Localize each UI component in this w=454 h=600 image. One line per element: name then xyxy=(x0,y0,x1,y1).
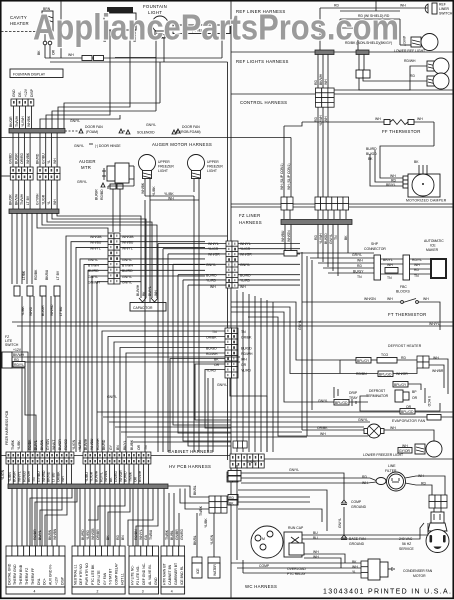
svg-text:BK/BN: BK/BN xyxy=(40,439,44,450)
svg-text:BN: BN xyxy=(121,535,125,540)
svg-text:OR: OR xyxy=(133,476,137,482)
svg-text:FBC: FBC xyxy=(400,285,407,289)
svg-text:WH/YL: WH/YL xyxy=(429,322,440,326)
ICE box xyxy=(192,557,202,563)
light leads xyxy=(144,179,146,197)
svg-text:RD/WH: RD/WH xyxy=(404,59,416,63)
svg-text:GN/YL: GN/YL xyxy=(247,460,257,464)
svg-text:LOWER REF LIGHT: LOWER REF LIGHT xyxy=(394,49,425,53)
svg-text:WH/BN: WH/BN xyxy=(53,528,57,540)
svg-text:DOOR FAN: DOOR FAN xyxy=(182,125,200,129)
svg-text:HOT L1: HOT L1 xyxy=(121,573,125,585)
lower ref light xyxy=(411,37,421,47)
svg-text:FRZR HARNESS PCB: FRZR HARNESS PCB xyxy=(5,410,9,445)
svg-text:TN/WH: TN/WH xyxy=(20,193,24,205)
staircase conn3 rows to left verticals xyxy=(102,331,225,452)
stepped feeder lines right xyxy=(231,302,340,360)
svg-text:MOTORIZED DAMPER: MOTORIZED DAMPER xyxy=(406,199,447,203)
svg-text:RD/GD: RD/GD xyxy=(22,471,26,482)
compressor xyxy=(251,526,283,558)
svg-text:TN: TN xyxy=(144,445,148,450)
svg-text:TN/BK: TN/BK xyxy=(128,471,132,482)
terminal block B xyxy=(72,546,125,594)
cabinet connector row 1 xyxy=(6,452,11,458)
svg-text:WH/BU: WH/BU xyxy=(281,230,285,242)
svg-text:EVAPORATOR FAN: EVAPORATOR FAN xyxy=(392,419,426,423)
svg-text:HARNESS: HARNESS xyxy=(239,220,262,225)
svg-text:CAPACITOR: CAPACITOR xyxy=(133,306,153,310)
svg-text:RD/BD: RD/BD xyxy=(100,189,104,200)
svg-text:NEUTRAL L1: NEUTRAL L1 xyxy=(73,564,77,585)
svg-text:HTR MAIN BT: HTR MAIN BT xyxy=(162,563,166,585)
svg-text:RD: RD xyxy=(362,475,367,479)
svg-text:BU: BU xyxy=(313,531,318,535)
svg-text:GN/BD: GN/BD xyxy=(9,153,13,164)
svg-text:LINER: LINER xyxy=(439,7,450,11)
svg-text:WH/YL: WH/YL xyxy=(208,242,219,246)
bus bar 5 xyxy=(8,484,168,489)
svg-text:YL/RD: YL/RD xyxy=(206,279,217,283)
svg-text:BK/WH: BK/WH xyxy=(14,193,18,205)
capacitor box xyxy=(130,303,166,312)
divider ref lights bottom xyxy=(231,93,453,95)
hv pcb grid xyxy=(209,496,227,513)
svg-text:WH: WH xyxy=(390,426,396,430)
svg-text:DRIP: DRIP xyxy=(349,391,358,395)
svg-text:WH/RD: WH/RD xyxy=(42,470,46,482)
svg-text:GN/YL: GN/YL xyxy=(70,119,80,123)
svg-text:FOUNTAIN DISPLAY: FOUNTAIN DISPLAY xyxy=(13,73,46,77)
svg-text:DIGITAL GND: DIGITAL GND xyxy=(7,563,11,585)
wires bus1 to grids xyxy=(12,133,14,167)
fountain display box xyxy=(10,69,63,78)
svg-text:RUN CAP: RUN CAP xyxy=(288,526,304,530)
svg-text:BK: BK xyxy=(229,502,234,506)
svg-text:BK/WH: BK/WH xyxy=(27,470,31,482)
defrost 2x2 grid xyxy=(417,356,429,368)
svg-text:GN/YL: GN/YL xyxy=(88,275,98,279)
svg-text:TN: TN xyxy=(387,276,392,280)
svg-text:LOWER FREEZER LIGHT: LOWER FREEZER LIGHT xyxy=(363,453,403,457)
240 plug xyxy=(433,508,435,512)
cabinet connector row 2 xyxy=(83,452,88,458)
svg-text:RD: RD xyxy=(314,235,318,240)
svg-text:BU/WH: BU/WH xyxy=(84,438,88,450)
svg-text:RD: RD xyxy=(410,74,415,78)
svg-text:WH/YL: WH/YL xyxy=(18,471,22,482)
terminal block D xyxy=(161,546,185,594)
svg-text:THERM BNB: THERM BNB xyxy=(19,564,23,585)
svg-text:COMP: COMP xyxy=(259,564,270,568)
central connector 2 xyxy=(226,241,238,288)
svg-text:BU/GR: BU/GR xyxy=(95,189,99,200)
svg-text:GN/YL: GN/YL xyxy=(122,258,132,262)
left column bundle xyxy=(21,296,23,452)
svg-text:YL/WH: YL/WH xyxy=(319,233,323,244)
svg-text:WH/D: WH/D xyxy=(29,306,33,316)
svg-text:GN/YL: GN/YL xyxy=(289,468,299,472)
svg-text:BU/GD: BU/GD xyxy=(324,233,328,244)
svg-text:HEATER: HEATER xyxy=(10,21,29,26)
shield label boxes xyxy=(82,56,92,61)
svg-text:RD: RD xyxy=(314,80,318,85)
svg-text:MAKER: MAKER xyxy=(426,248,439,252)
frame stub wire xyxy=(1,175,10,177)
svg-text:GN/YL: GN/YL xyxy=(88,258,98,262)
divider cabinet harness top left xyxy=(1,455,231,457)
svg-text:GROUND: GROUND xyxy=(351,505,367,509)
svg-text:WH: WH xyxy=(362,481,368,485)
long horiz pair xyxy=(12,321,454,323)
svg-text:FREEZER: FREEZER xyxy=(158,165,174,169)
svg-text:WH/BR: WH/BR xyxy=(432,369,444,373)
svg-text:WH/BU: WH/BU xyxy=(90,438,94,450)
svg-text:WC HARNESS: WC HARNESS xyxy=(245,584,277,589)
svg-text:OR/BR: OR/BR xyxy=(96,529,100,540)
pin blocks above fz bus xyxy=(281,197,293,210)
svg-text:CONDENSER FAN: CONDENSER FAN xyxy=(403,569,433,573)
svg-text:TERMINATOR: TERMINATOR xyxy=(366,394,389,398)
svg-text:BK/WH: BK/WH xyxy=(13,353,25,357)
svg-text:WH/YL: WH/YL xyxy=(139,529,143,540)
left zigzag wires xyxy=(10,368,36,452)
svg-text:BPL/GD: BPL/GD xyxy=(379,373,392,377)
svg-text:2: 2 xyxy=(97,590,99,594)
svg-text:BK/RD: BK/RD xyxy=(102,439,106,450)
svg-text:TN/BU: TN/BU xyxy=(149,529,153,540)
svg-text:OR/BK: OR/BK xyxy=(317,426,328,430)
divider vertical main x=231 xyxy=(230,1,232,599)
svg-text:YL/BN: YL/BN xyxy=(8,472,12,482)
bpl/gy mid xyxy=(393,382,408,388)
svg-text:TN: TN xyxy=(241,330,246,334)
svg-text:WH/LT: WH/LT xyxy=(52,440,56,450)
upper freezer light 1 xyxy=(139,155,156,172)
grid connector 3x4 xyxy=(316,88,335,107)
svg-text:RD: RD xyxy=(229,496,234,500)
terminal block C xyxy=(129,546,159,594)
svg-text:OR: OR xyxy=(241,363,247,367)
WATER box xyxy=(208,557,220,563)
svg-text:BU/WH: BU/WH xyxy=(95,470,99,482)
vertical wire pair right xyxy=(227,62,229,460)
svg-text:WH/BK: WH/BK xyxy=(27,115,31,127)
svg-text:TN/BK: TN/BK xyxy=(165,529,169,540)
svg-text:RD: RD xyxy=(401,356,406,360)
svg-text:WH: WH xyxy=(324,79,328,85)
svg-text:BU/RD: BU/RD xyxy=(88,269,99,273)
drip tray heater symbol xyxy=(333,387,335,398)
svg-text:WH: WH xyxy=(313,550,319,554)
svg-text:TN: TN xyxy=(32,477,36,482)
svg-text:DISP: DISP xyxy=(60,576,64,585)
svg-text:GN/YL: GN/YL xyxy=(358,418,368,422)
svg-text:FT THERMISTOR: FT THERMISTOR xyxy=(388,312,427,317)
svg-text:CAVITY: CAVITY xyxy=(10,15,27,20)
svg-text:GARBNER BT: GARBNER BT xyxy=(174,563,178,585)
svg-text:DOOR FAN: DOOR FAN xyxy=(85,125,103,129)
svg-text:MOTOR: MOTOR xyxy=(413,574,426,578)
svg-text:DEFROST: DEFROST xyxy=(369,389,385,393)
svg-text:WH: WH xyxy=(324,116,328,122)
svg-text:RD: RD xyxy=(357,264,362,268)
svg-text:M: M xyxy=(262,537,265,541)
svg-text:YL: YL xyxy=(47,160,51,164)
svg-text:GN/YL: GN/YL xyxy=(298,320,302,330)
svg-text:YL/WH: YL/WH xyxy=(21,116,25,127)
svg-text:BK: BK xyxy=(368,157,373,161)
svg-text:YL/TN: YL/TN xyxy=(78,440,82,450)
svg-text:GN/YL: GN/YL xyxy=(338,518,342,528)
svg-text:GA: GA xyxy=(144,534,148,540)
svg-text:BU/BK: BU/BK xyxy=(130,439,134,450)
svg-text:SHP: SHP xyxy=(371,242,379,246)
svg-text:WH: WH xyxy=(400,4,406,8)
svg-text:GR/YL: GR/YL xyxy=(352,253,362,257)
svg-text:GY: GY xyxy=(109,444,113,450)
svg-text:AUTOMATIC: AUTOMATIC xyxy=(424,239,444,243)
svg-text:BU/GR: BU/GR xyxy=(41,305,45,316)
svg-text:FZR LITE: FZR LITE xyxy=(97,570,101,585)
svg-text:OR/BK: OR/BK xyxy=(56,471,60,482)
svg-text:WH/GB: WH/GB xyxy=(91,528,95,540)
svg-text:RD/YL: RD/YL xyxy=(14,363,24,367)
svg-text:GY/WH: GY/WH xyxy=(36,193,40,205)
svg-text:FREEZER: FREEZER xyxy=(207,165,223,169)
bus bar 1 xyxy=(9,129,65,134)
svg-text:AL VALVE BI-: AL VALVE BI- xyxy=(148,564,152,585)
svg-text:WH: WH xyxy=(53,199,57,205)
svg-text:OR: OR xyxy=(52,49,56,55)
svg-text:WH: WH xyxy=(68,53,74,57)
svg-text:BU/GD: BU/GD xyxy=(366,152,377,156)
svg-text:WH/OR: WH/OR xyxy=(119,470,123,482)
svg-text:WATER: WATER xyxy=(213,564,217,576)
wires below bars xyxy=(317,55,319,89)
connector grid A1 2x4 xyxy=(10,167,33,180)
svg-text:DEFROST HEATER: DEFROST HEATER xyxy=(388,344,422,348)
svg-text:BPL/GY: BPL/GY xyxy=(394,383,407,387)
svg-text:AUGER: AUGER xyxy=(79,159,96,164)
svg-text:BU/BL: BU/BL xyxy=(170,530,174,540)
svg-text:WH/BK: WH/BK xyxy=(141,182,145,194)
svg-text:GR/YL: GR/YL xyxy=(77,180,87,184)
connector grid A2 2x4 xyxy=(37,167,60,180)
svg-text:YL/GR: YL/GR xyxy=(208,247,219,251)
wire horiz y58 xyxy=(45,57,156,59)
svg-text:LINE: LINE xyxy=(388,464,396,468)
svg-text:BU/RD: BU/RD xyxy=(122,269,133,273)
svg-text:BU/GR: BU/GR xyxy=(58,439,62,450)
svg-text:ICE BND RL: ICE BND RL xyxy=(180,566,184,585)
cell pin marks xyxy=(8,454,10,456)
svg-text:WH/BN: WH/BN xyxy=(104,470,108,482)
dispenser solenoid xyxy=(107,7,133,13)
svg-text:GN/YL: GN/YL xyxy=(122,281,132,285)
svg-text:YL/GR: YL/GR xyxy=(240,247,251,251)
svg-text:WH: WH xyxy=(241,358,247,362)
wires below bus to terminal blocks xyxy=(11,489,13,547)
wc input connector grid xyxy=(230,454,264,468)
svg-text:YL/RD: YL/RD xyxy=(86,529,90,540)
svg-text:RD/BK: RD/BK xyxy=(34,269,38,280)
wires bending from upper right into bus xyxy=(64,103,160,129)
svg-text:RD/BN: RD/BN xyxy=(134,529,138,540)
svg-text:WH: WH xyxy=(154,290,158,296)
verticals mid from conn2 left wires xyxy=(157,244,159,453)
svg-text:BU/RD: BU/RD xyxy=(206,273,217,277)
svg-text:BK: BK xyxy=(344,235,348,240)
svg-text:BU/RD: BU/RD xyxy=(124,471,128,482)
svg-text:56 HZ: 56 HZ xyxy=(402,542,411,546)
motorized damper xyxy=(403,176,408,180)
svg-text:BT/WH: BT/WH xyxy=(88,264,99,268)
svg-text:BU/GR: BU/GR xyxy=(14,153,18,164)
display wires down xyxy=(13,106,15,129)
svg-text:YL/GR: YL/GR xyxy=(90,471,94,482)
svg-text:DC+: DC+ xyxy=(43,578,47,585)
svg-text:BK: BK xyxy=(106,535,110,540)
svg-text:RD/WH: RD/WH xyxy=(96,438,100,450)
svg-text:TN: TN xyxy=(357,275,362,279)
svg-text:BPL/GY: BPL/GY xyxy=(357,359,370,363)
z-bend wires below bus5 xyxy=(30,489,72,547)
svg-text:WH: WH xyxy=(417,117,423,121)
svg-text:DISP: DISP xyxy=(30,88,34,97)
svg-text:RD: RD xyxy=(391,179,396,183)
svg-text:3: 3 xyxy=(142,590,144,594)
svg-text:YL/WH: YL/WH xyxy=(319,115,323,126)
ft thermistor row xyxy=(302,301,400,303)
svg-text:BLOCKS: BLOCKS xyxy=(396,290,410,294)
svg-text:ICE: ICE xyxy=(196,568,200,574)
svg-text:LT BU: LT BU xyxy=(51,472,55,482)
svg-text:RD/BR: RD/BR xyxy=(33,529,37,540)
svg-text:YL: YL xyxy=(47,201,51,205)
svg-text:BU/YL: BU/YL xyxy=(38,530,42,540)
svg-text:WH/RD: WH/RD xyxy=(50,304,54,316)
svg-text:GND: GND xyxy=(12,89,16,97)
svg-text:+12V: +12V xyxy=(55,576,59,585)
svg-text:PWR HTR NO: PWR HTR NO xyxy=(85,563,89,585)
svg-text:AppliancePartsPros.com: AppliancePartsPros.com xyxy=(33,7,399,48)
svg-text:BN: BN xyxy=(116,445,120,450)
central connector 1 xyxy=(108,233,120,284)
tco row xyxy=(356,358,371,364)
svg-text:BK: BK xyxy=(37,50,41,55)
connector pin digits xyxy=(110,235,112,238)
terminal block A xyxy=(6,546,65,594)
svg-text:TN: TN xyxy=(334,235,338,240)
svg-text:GN/YL: GN/YL xyxy=(146,123,156,127)
box wire loop xyxy=(115,57,156,59)
right vertical feeders xyxy=(236,290,238,452)
bus bars on y52 xyxy=(315,50,334,55)
svg-text:WH: WH xyxy=(387,297,393,301)
svg-text:YL/BK: YL/BK xyxy=(204,518,208,528)
svg-text:GY/GN: GY/GN xyxy=(46,439,50,450)
svg-text:WH: WH xyxy=(61,476,65,482)
svg-text:GN/YL: GN/YL xyxy=(206,263,216,267)
svg-text:THERM FZ: THERM FZ xyxy=(25,568,29,585)
svg-text:WH/GN: WH/GN xyxy=(287,230,291,242)
svg-text:BR/YL: BR/YL xyxy=(386,183,396,187)
svg-text:LT BU: LT BU xyxy=(59,306,63,316)
svg-text:COMP: COMP xyxy=(351,500,362,504)
svg-text:UPPER: UPPER xyxy=(158,160,170,164)
wires grids to bus2 xyxy=(12,180,14,209)
svg-text:RD: RD xyxy=(314,117,318,122)
svg-text:BK/RD: BK/RD xyxy=(36,153,40,164)
svg-text:WH (SLIP CON1): WH (SLIP CON1) xyxy=(287,163,291,190)
svg-text:WH/GR: WH/GR xyxy=(240,252,252,256)
svg-text:GN/RD: GN/RD xyxy=(180,529,184,540)
central connector 3 xyxy=(225,328,238,378)
svg-text:|·| DOOR HINGE: |·| DOOR HINGE xyxy=(95,144,121,148)
svg-text:WH/OR: WH/OR xyxy=(396,372,408,376)
ref liner switch xyxy=(425,4,428,13)
svg-text:PTC LITE BK: PTC LITE BK xyxy=(91,564,95,585)
svg-text:BK/RD: BK/RD xyxy=(47,471,51,482)
svg-text:5 HCO: 5 HCO xyxy=(427,396,431,407)
wires from fountain area xyxy=(155,38,157,58)
svg-text:RD/GD: RD/GD xyxy=(64,439,68,450)
svg-text:BK/BN: BK/BN xyxy=(48,529,52,540)
heater leads xyxy=(44,31,46,58)
svg-text:DNL: DNL xyxy=(37,578,41,585)
svg-text:YL/BK: YL/BK xyxy=(21,306,25,316)
svg-text:BK: BK xyxy=(414,160,419,164)
svg-text:AUGER MOTOR HARNESS: AUGER MOTOR HARNESS xyxy=(152,142,212,147)
upper freezer light 2 xyxy=(188,155,205,172)
svg-text:BT/WH: BT/WH xyxy=(122,264,133,268)
svg-text:GN/YL: GN/YL xyxy=(74,144,84,148)
svg-text:(ROB-FOAM): (ROB-FOAM) xyxy=(180,130,201,134)
loop wires defrost xyxy=(339,360,341,374)
horizontals lower right going to right half xyxy=(97,411,454,413)
svg-text:WH: WH xyxy=(375,117,381,121)
bus bar 2 xyxy=(9,209,59,214)
svg-text:GN/YL: GN/YL xyxy=(329,234,333,244)
svg-text:BU/GR: BU/GR xyxy=(13,471,17,482)
svg-text:WH: WH xyxy=(320,432,326,436)
svg-text:LT/BK: LT/BK xyxy=(22,270,26,280)
wc grid pin marks xyxy=(232,456,234,459)
svg-text:LT BV: LT BV xyxy=(26,195,30,205)
svg-text:RD/YL: RD/YL xyxy=(99,472,103,482)
cavity heater enclosure xyxy=(60,1,62,58)
svg-text:AUX GND IN-: AUX GND IN- xyxy=(49,564,53,585)
svg-text:FZ LINER: FZ LINER xyxy=(239,213,261,218)
svg-text:BK/OR: BK/OR xyxy=(9,194,13,205)
ff thermistor xyxy=(302,121,384,123)
wires below fz bus xyxy=(284,225,286,253)
svg-text:WH/GN: WH/GN xyxy=(364,297,376,301)
svg-text:OR/RD: OR/RD xyxy=(20,153,24,164)
svg-text:YL/BU: YL/BU xyxy=(85,472,89,482)
svg-text:YL/GN: YL/GN xyxy=(1,469,5,480)
wires bus2 down left xyxy=(11,213,13,284)
svg-text:CONNECTOR: CONNECTOR xyxy=(364,247,386,251)
svg-text:GY/BU: GY/BU xyxy=(37,471,41,482)
svg-text:(FOAM): (FOAM) xyxy=(86,130,98,134)
svg-text:BK/BL: BK/BL xyxy=(193,485,197,495)
svg-text:YL/RD: YL/RD xyxy=(240,279,251,283)
wires below grid xyxy=(317,107,319,197)
svg-text:YL/BK: YL/BK xyxy=(164,192,174,196)
svg-text:4: 4 xyxy=(34,590,36,594)
svg-text:WH/BK: WH/BK xyxy=(26,152,30,164)
